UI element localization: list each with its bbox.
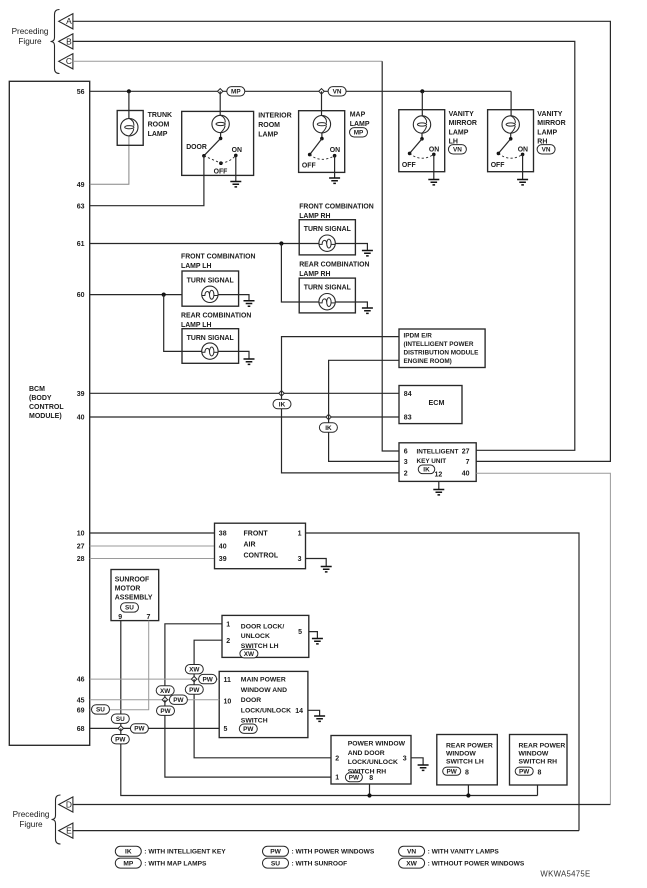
svg-text:KEY UNIT: KEY UNIT xyxy=(417,458,447,465)
svg-text:ECM: ECM xyxy=(429,398,445,407)
svg-text:: WITH POWER WINDOWS: : WITH POWER WINDOWS xyxy=(292,849,375,856)
wire: rear RH pin 8 down to bottom bus xyxy=(537,785,539,796)
svg-text:VN: VN xyxy=(542,147,551,154)
wire: trunk room lamp to BCM pin 49 (gray) xyxy=(90,127,129,184)
node: PWDLU RH on bottom bus xyxy=(367,793,371,797)
svg-text:FRONT: FRONT xyxy=(244,531,269,538)
interior room lamp bulb xyxy=(212,115,229,132)
ground (rear combination lamp LH) xyxy=(244,359,255,364)
svg-text:DOOR LOCK/: DOOR LOCK/ xyxy=(241,624,285,631)
svg-text:UNLOCK: UNLOCK xyxy=(241,633,270,640)
wire C vertical down to intelligent key unit pin 6 xyxy=(382,61,399,451)
svg-text:2: 2 xyxy=(335,755,339,762)
svg-text:WINDOW: WINDOW xyxy=(519,751,549,758)
connector triangle A xyxy=(59,14,73,29)
connector triangle B xyxy=(59,34,73,49)
svg-text:: WITH VANITY LAMPS: : WITH VANITY LAMPS xyxy=(428,849,500,856)
svg-text:AND DOOR: AND DOOR xyxy=(348,750,385,757)
node on wire 61 xyxy=(279,241,283,245)
svg-text:MOTOR: MOTOR xyxy=(115,586,141,593)
option oval PW on wire 45 xyxy=(169,695,187,704)
svg-text:SWITCH RH: SWITCH RH xyxy=(519,759,558,766)
ground (front air control) xyxy=(321,567,332,572)
option oval IK (intelligent key unit) xyxy=(418,465,435,474)
svg-text:E: E xyxy=(66,826,72,836)
junction diamond before VN oval (map lamp tap) xyxy=(319,89,324,94)
svg-text:1: 1 xyxy=(226,621,230,628)
wire: IKU pin 40 to right vertical down to triangle D (gray) xyxy=(476,473,610,804)
option oval SU (sunroof motor assembly) xyxy=(121,603,139,612)
main power window and door lock/unlock switch box xyxy=(219,671,308,737)
svg-text:OFF: OFF xyxy=(214,169,228,176)
svg-text:XW: XW xyxy=(189,667,200,674)
svg-text:DOOR: DOOR xyxy=(186,144,207,151)
svg-text:INTELLIGENT: INTELLIGENT xyxy=(417,449,459,456)
svg-text:MP: MP xyxy=(123,860,133,867)
svg-text:ROOM: ROOM xyxy=(258,122,280,129)
svg-text:LOCK/UNLOCK: LOCK/UNLOCK xyxy=(348,759,398,766)
svg-text:MAP: MAP xyxy=(350,112,366,119)
svg-text:39: 39 xyxy=(77,391,85,398)
svg-text:PW: PW xyxy=(173,697,184,704)
map lamp switch pivot wire xyxy=(321,133,323,139)
interior lamp switch blade (to DOOR) xyxy=(219,137,223,141)
wire: interior lamp drop from wire 56 xyxy=(219,91,221,115)
option oval PW on wire 68 xyxy=(130,724,148,733)
svg-text:SWITCH LH: SWITCH LH xyxy=(446,759,484,766)
option oval MP (map lamp) xyxy=(350,128,368,137)
wire: wire 40 down to intelligent key unit pin 3 xyxy=(329,417,399,461)
svg-text:CONTROL: CONTROL xyxy=(244,553,279,560)
interior room lamp box xyxy=(182,111,254,175)
svg-text:ON: ON xyxy=(232,147,242,154)
wire: wire 40 up to IPDM E/R xyxy=(329,360,399,417)
svg-text:5: 5 xyxy=(224,726,228,733)
svg-text:SU: SU xyxy=(271,860,280,867)
svg-text:MP: MP xyxy=(354,130,364,137)
svg-text:SWITCH LH: SWITCH LH xyxy=(241,643,279,650)
svg-text:SU: SU xyxy=(116,716,125,723)
interior lamp OFF contact xyxy=(219,161,223,165)
svg-text:PW: PW xyxy=(115,737,126,744)
svg-text:1: 1 xyxy=(298,531,302,538)
junction diamond on wire 45 xyxy=(162,697,167,702)
connector triangle D xyxy=(59,797,73,812)
svg-text:10: 10 xyxy=(224,699,232,706)
rear power window switch RH box xyxy=(510,735,568,786)
svg-text:Figure: Figure xyxy=(18,37,42,46)
vanity LH ON contact xyxy=(432,153,436,157)
wire: wire 39 up to IPDM E/R xyxy=(282,337,400,394)
wire: front air control pin 1 to right vertical down to triangle E xyxy=(306,533,580,831)
svg-text:40: 40 xyxy=(219,544,227,551)
vanity RH switch blade (to OFF) xyxy=(498,139,510,154)
svg-text:IK: IK xyxy=(325,425,332,432)
svg-text:MAIN POWER: MAIN POWER xyxy=(241,677,286,684)
svg-text:REAR POWER: REAR POWER xyxy=(446,742,493,749)
wire 40: BCM to ECM pin 83 xyxy=(90,416,399,418)
svg-text:: WITH SUNROOF: : WITH SUNROOF xyxy=(292,861,348,868)
wire 45: BCM to MAIN pin 10 (gray) xyxy=(90,699,220,701)
wire E: right vertical to triangle E xyxy=(73,830,579,832)
rear LH turn signal bulb xyxy=(202,343,218,359)
svg-text:46: 46 xyxy=(77,677,85,684)
svg-text:WINDOW: WINDOW xyxy=(446,751,476,758)
svg-text:WKWA5475E: WKWA5475E xyxy=(540,870,590,879)
wire: front air control pin 3 to ground xyxy=(306,559,327,567)
vanity LH switch blade (to OFF) xyxy=(410,139,422,154)
svg-text:ASSEMBLY: ASSEMBLY xyxy=(115,595,153,602)
svg-text:7: 7 xyxy=(466,459,470,466)
svg-text:A: A xyxy=(66,16,72,26)
svg-text:REAR COMBINATION: REAR COMBINATION xyxy=(299,261,369,268)
svg-text:3: 3 xyxy=(298,556,302,563)
svg-text:MP: MP xyxy=(231,89,241,96)
map lamp switch blade (to OFF) xyxy=(310,139,322,155)
wire 56: BCM to vanity mirror lamp RH xyxy=(90,90,511,92)
option oval XW on DLU LH pin 2 branch xyxy=(185,665,203,674)
front combination lamp LH turn signal box xyxy=(182,271,239,306)
interior lamp ON contact xyxy=(234,154,238,158)
wire: wire 45 down to power window switch RH pin 1 xyxy=(165,700,331,777)
svg-text:28: 28 xyxy=(77,556,85,563)
svg-text:Figure: Figure xyxy=(19,820,43,829)
svg-text:(INTELLIGENT POWER: (INTELLIGENT POWER xyxy=(404,341,474,348)
svg-text:61: 61 xyxy=(77,241,85,248)
svg-text:11: 11 xyxy=(224,677,232,684)
wire: IKU pin 12 to ground xyxy=(438,481,440,489)
svg-text:XW: XW xyxy=(160,688,171,695)
svg-text:LAMP: LAMP xyxy=(258,132,278,139)
svg-text:PW: PW xyxy=(349,775,360,782)
legend PW xyxy=(263,846,289,856)
option oval SU on sunroof pin 9 wire xyxy=(111,714,129,723)
ground (door lock/unlock switch LH) xyxy=(312,639,323,644)
vanity LH dashed selector arc xyxy=(410,153,434,158)
junction diamond on wire 46 xyxy=(191,676,196,681)
vanity LH OFF contact xyxy=(408,152,412,156)
node: trunk lamp tap on wire 56 xyxy=(127,89,131,93)
svg-text:63: 63 xyxy=(77,203,85,210)
option oval VN on wire 56 xyxy=(328,87,346,96)
node: rear LH on bottom bus xyxy=(466,793,470,797)
ground (intelligent key unit) xyxy=(433,490,444,495)
ground (rear combination lamp RH) xyxy=(362,308,373,313)
map lamp dashed selector arc xyxy=(310,155,335,160)
svg-text:OFF: OFF xyxy=(491,162,505,169)
option oval IK on wire 39 branch xyxy=(273,399,291,408)
junction diamond on wire 68 xyxy=(118,726,123,731)
svg-text:2: 2 xyxy=(226,638,230,645)
svg-text:VANITY: VANITY xyxy=(449,111,474,118)
svg-text:POWER WINDOW: POWER WINDOW xyxy=(348,741,406,748)
vanity LH switch pivot wire xyxy=(421,133,423,139)
option oval VN (vanity RH) xyxy=(537,145,555,154)
junction diamond on wire 40 xyxy=(326,414,331,419)
svg-text:SU: SU xyxy=(96,707,105,714)
svg-text:83: 83 xyxy=(404,415,412,422)
svg-text:LAMP: LAMP xyxy=(537,129,557,136)
ground (vanity mirror lamp RH) xyxy=(517,180,528,185)
wire D: right vertical to triangle D xyxy=(73,804,611,806)
svg-text:REAR POWER: REAR POWER xyxy=(519,742,566,749)
svg-text:PW: PW xyxy=(202,676,213,683)
svg-text:PW: PW xyxy=(519,769,530,776)
map lamp bulb xyxy=(313,116,330,133)
ground (vanity mirror lamp LH) xyxy=(428,180,439,185)
svg-text:IK: IK xyxy=(125,849,132,856)
svg-text:IK: IK xyxy=(423,467,430,474)
svg-text:68: 68 xyxy=(77,726,85,733)
front LH turn signal bulb xyxy=(202,286,218,302)
wire: interior lamp ON contact to ground xyxy=(235,155,237,181)
wire 28: BCM to front air control pin 39 (gray) xyxy=(90,558,215,560)
front RH turn signal bulb xyxy=(319,235,335,251)
svg-text:AIR: AIR xyxy=(244,542,256,549)
svg-text:SUNROOF: SUNROOF xyxy=(115,576,149,583)
front air control box xyxy=(215,523,306,569)
wire: MAIN pin 14 to ground xyxy=(308,710,320,716)
svg-text:40: 40 xyxy=(462,470,470,477)
svg-text:40: 40 xyxy=(77,415,85,422)
option oval PW on wire 46 down branch xyxy=(185,685,203,694)
BCM (body control module) box xyxy=(9,81,89,745)
option oval PW (main power window switch) xyxy=(239,724,257,733)
connector triangle C xyxy=(59,54,73,69)
vanity RH ON contact xyxy=(521,153,525,157)
svg-text:LAMP LH: LAMP LH xyxy=(181,263,212,270)
svg-text:84: 84 xyxy=(404,391,412,398)
svg-text:39: 39 xyxy=(219,556,227,563)
svg-text:LAMP: LAMP xyxy=(449,129,469,136)
svg-text:3: 3 xyxy=(403,755,407,762)
rear power window switch LH box xyxy=(437,735,498,785)
intelligent key unit box xyxy=(399,443,476,482)
svg-text:TRUNK: TRUNK xyxy=(148,112,173,119)
wire 10: BCM to front air control pin 38 xyxy=(90,532,215,534)
wire 68: BCM to MAIN pin 5 xyxy=(90,727,220,729)
svg-text:PW: PW xyxy=(243,726,254,733)
brace (bottom) xyxy=(52,795,61,844)
wire 46: BCM to MAIN pin 11 (gray) xyxy=(90,678,220,680)
svg-text:WINDOW AND: WINDOW AND xyxy=(241,687,287,694)
option oval XW on DLU LH pin 1 branch xyxy=(156,686,174,695)
wire: wire 46 down to power window switch RH pin 2 xyxy=(194,679,331,758)
wire 61: BCM to front combination lamp RH turn signal xyxy=(90,243,300,245)
svg-text:XW: XW xyxy=(406,860,417,867)
svg-text:FRONT COMBINATION: FRONT COMBINATION xyxy=(181,254,256,261)
option oval PW (power window switch RH) xyxy=(345,773,362,782)
wire C horizontal (gray) xyxy=(73,60,382,62)
svg-text:27: 27 xyxy=(462,449,470,456)
option oval PW (rear power window switch LH) xyxy=(443,767,461,775)
svg-text:69: 69 xyxy=(77,707,85,714)
svg-text:3: 3 xyxy=(404,459,408,466)
ground (front combination lamp RH) xyxy=(362,251,373,256)
svg-text:45: 45 xyxy=(77,697,85,704)
power window and door lock/unlock switch RH box xyxy=(331,736,411,785)
svg-text:60: 60 xyxy=(77,292,85,299)
wire: vanity LH ON contact to ground xyxy=(433,154,435,179)
svg-text:DOOR: DOOR xyxy=(241,697,261,704)
svg-text:27: 27 xyxy=(77,544,85,551)
wire: vanity RH ON contact to ground xyxy=(522,154,524,179)
vanity mirror lamp LH bulb xyxy=(413,116,430,133)
svg-text:VANITY: VANITY xyxy=(537,111,562,118)
svg-text:12: 12 xyxy=(435,472,443,479)
junction diamond on wire 39 xyxy=(279,391,284,396)
wire: interior lamp DOOR contact to BCM pin 63 xyxy=(90,156,204,206)
svg-text:6: 6 xyxy=(404,449,408,456)
svg-text:LAMP: LAMP xyxy=(148,131,168,138)
svg-text:ON: ON xyxy=(518,146,528,153)
IPDM E/R box xyxy=(399,329,485,368)
svg-text:8: 8 xyxy=(369,775,373,782)
svg-text:TURN SIGNAL: TURN SIGNAL xyxy=(187,335,234,342)
svg-text:PW: PW xyxy=(160,708,171,715)
legend VN xyxy=(399,846,425,856)
legend IK xyxy=(115,846,141,856)
connector triangle E xyxy=(59,823,73,838)
option oval XW (door lock/unlock switch LH) xyxy=(240,649,258,658)
svg-text:LAMP RH: LAMP RH xyxy=(299,271,330,278)
svg-text:OFF: OFF xyxy=(402,162,416,169)
option oval PW on wire 45 down branch xyxy=(157,706,175,715)
wire: DLU LH pin 1 left and down to wire 45 diamond xyxy=(165,624,222,700)
wire: wire 39 down to intelligent key unit pin 2 xyxy=(282,393,400,473)
wire: DLU LH pin 5 to ground xyxy=(309,632,318,639)
vanity RH OFF contact xyxy=(497,152,501,156)
svg-text:XW: XW xyxy=(244,651,255,658)
wire A: triangle A to right vertical down to intelligent key unit pin 7 xyxy=(73,21,611,461)
svg-text:TURN SIGNAL: TURN SIGNAL xyxy=(304,226,351,233)
vanity RH dashed selector arc xyxy=(498,153,522,158)
svg-text:8: 8 xyxy=(538,769,542,776)
svg-text:: WITHOUT POWER WINDOWS: : WITHOUT POWER WINDOWS xyxy=(428,861,525,868)
svg-text:TURN SIGNAL: TURN SIGNAL xyxy=(304,285,351,292)
svg-text:14: 14 xyxy=(295,708,303,715)
svg-text:10: 10 xyxy=(77,531,85,538)
svg-text:TURN SIGNAL: TURN SIGNAL xyxy=(187,278,234,285)
svg-text:38: 38 xyxy=(219,531,227,538)
wire: PWDLU RH pin 3 to ground xyxy=(411,758,423,765)
svg-text:Preceding: Preceding xyxy=(12,27,49,36)
junction diamond before MP oval (interior lamp tap) xyxy=(218,89,223,94)
wire B: triangle B to right vertical down to intelligent key unit pin 27 xyxy=(73,41,575,450)
wire: sunroof pin 7 down to wire 69 (gray) xyxy=(90,621,149,710)
svg-text:INTERIOR: INTERIOR xyxy=(258,113,291,120)
wire 27: BCM to front air control pin 40 (gray) xyxy=(90,545,215,547)
vanity RH switch pivot wire xyxy=(510,133,512,139)
svg-text:ON: ON xyxy=(330,147,340,154)
node: vanity lamp LH tap on wire 56 xyxy=(420,89,424,93)
trunk room lamp bulb xyxy=(121,119,138,136)
ground (main power window switch) xyxy=(314,716,325,721)
map lamp box xyxy=(299,111,345,173)
option oval VN (vanity LH) xyxy=(448,145,466,154)
wire: rear LH pin 8 to bottom bus xyxy=(467,785,469,796)
svg-text:56: 56 xyxy=(77,89,85,96)
svg-text:CONTROL: CONTROL xyxy=(29,404,64,411)
rear combination lamp LH turn signal box xyxy=(182,329,239,364)
rear RH turn signal bulb xyxy=(319,294,335,310)
door lock/unlock switch LH box xyxy=(222,615,309,657)
wire: sunroof pin 9 down to wire 68 diamond xyxy=(120,621,122,729)
svg-text:Preceding: Preceding xyxy=(13,810,50,819)
svg-text:C: C xyxy=(66,56,72,66)
svg-text:PW: PW xyxy=(134,726,145,733)
svg-text:49: 49 xyxy=(77,182,85,189)
option oval MP on wire 56 xyxy=(227,87,245,96)
svg-text:1: 1 xyxy=(335,775,339,782)
wire: map lamp drop from wire 56 xyxy=(321,91,323,116)
rear combination lamp RH turn signal box xyxy=(299,278,355,313)
option oval PW (rear power window switch RH) xyxy=(515,767,533,775)
wire: wire 61 node down to rear combination lamp RH xyxy=(281,244,319,303)
svg-text:SU: SU xyxy=(125,605,134,612)
svg-text:DISTRIBUTION MODULE: DISTRIBUTION MODULE xyxy=(404,350,480,357)
ground (power window switch RH) xyxy=(418,765,429,770)
svg-text:: WITH MAP LAMPS: : WITH MAP LAMPS xyxy=(144,861,207,868)
svg-text:9: 9 xyxy=(118,614,122,621)
svg-text:B: B xyxy=(66,36,72,46)
ground (interior room lamp) xyxy=(230,182,241,187)
legend XW xyxy=(399,858,425,868)
svg-text:PW: PW xyxy=(270,849,281,856)
svg-text:D: D xyxy=(66,799,72,809)
svg-text:VN: VN xyxy=(333,89,342,96)
front combination lamp RH turn signal box xyxy=(299,220,355,255)
svg-text:ENGINE ROOM): ENGINE ROOM) xyxy=(404,358,452,365)
svg-text:(BODY: (BODY xyxy=(29,395,52,402)
svg-text:IPDM E/R: IPDM E/R xyxy=(404,332,433,339)
wire: wire 60 node down to rear combination lamp LH xyxy=(164,295,202,352)
option oval PW on wire 68 down branch xyxy=(111,735,129,744)
interior lamp dashed selector arc xyxy=(204,156,221,163)
wire: wire 56 down into trunk room lamp xyxy=(128,91,130,127)
svg-text:MIRROR: MIRROR xyxy=(449,120,477,127)
svg-text:ON: ON xyxy=(429,146,439,153)
vanity mirror lamp LH box xyxy=(399,110,445,172)
svg-text:ROOM: ROOM xyxy=(148,122,170,129)
svg-text:IK: IK xyxy=(279,401,286,408)
svg-text:MODULE): MODULE) xyxy=(29,413,62,420)
map lamp ON contact xyxy=(333,154,337,158)
ECM box xyxy=(399,386,462,424)
svg-text:7: 7 xyxy=(147,614,151,621)
svg-text:PW: PW xyxy=(447,769,458,776)
svg-text:5: 5 xyxy=(298,629,302,636)
wire: PWDLU RH pin 8 to bottom bus xyxy=(369,784,371,796)
svg-text:2: 2 xyxy=(404,470,408,477)
node on wire 60 xyxy=(162,293,166,297)
svg-text:PW: PW xyxy=(189,687,200,694)
option oval PW on wire 46 xyxy=(199,674,217,683)
wire 60: BCM to front combination lamp LH turn signal xyxy=(90,294,182,296)
wire 39: BCM to ECM pin 84 xyxy=(90,392,399,394)
wire: map lamp ON contact to ground xyxy=(334,156,336,178)
wire: vanity RH drop from wire 56 xyxy=(510,91,512,116)
wire: DLU LH pin 2 left and down to wire 46 diamond xyxy=(194,640,222,679)
legend SU xyxy=(263,858,289,868)
svg-text:8: 8 xyxy=(465,769,469,776)
vanity mirror lamp RH bulb xyxy=(502,116,519,133)
svg-text:FRONT COMBINATION: FRONT COMBINATION xyxy=(299,204,374,211)
option oval IK on wire 40 branch xyxy=(319,423,337,432)
interior lamp switch pivot wire xyxy=(220,133,222,139)
brace (top) xyxy=(51,10,60,74)
ground (front combination lamp LH) xyxy=(244,301,255,306)
